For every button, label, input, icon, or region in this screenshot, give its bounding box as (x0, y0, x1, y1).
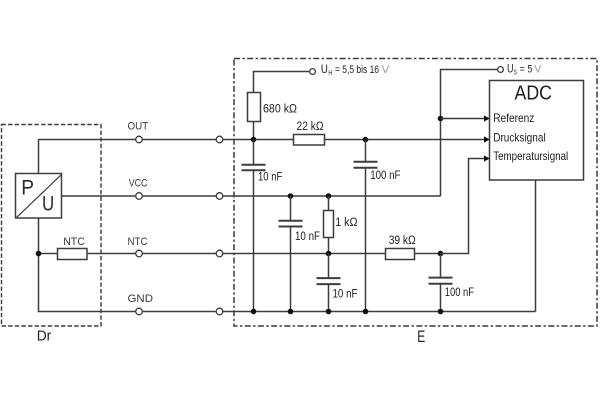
svg-text:100 nF: 100 nF (445, 287, 474, 299)
wire VCC to R3 (328, 196, 330, 211)
svg-text:U: U (321, 64, 328, 76)
wire GND line (38, 311, 536, 313)
svg-text:H: H (328, 68, 332, 77)
resistor R3 1 kOhm (324, 211, 358, 238)
wire OUT riser from sensor top (38, 140, 40, 174)
svg-text:22 kΩ: 22 kΩ (297, 121, 324, 133)
svg-text:P: P (21, 176, 34, 199)
svg-text:10 nF: 10 nF (258, 171, 282, 183)
terminal US (498, 67, 504, 73)
connector pin NTC (Dr side) (136, 250, 143, 257)
node US/Referenz junction (438, 116, 444, 122)
enclosure Dr (sensor module, dashed box) (2, 125, 102, 327)
wire C5 leg (440, 254, 442, 278)
connector pin VCC (E side) (216, 193, 223, 200)
node C1/GND (251, 309, 257, 315)
node NTC/R3 junction (326, 251, 332, 257)
connector pin GND (E side) (216, 308, 223, 315)
arrow into Referenz (484, 115, 490, 121)
svg-text:10 nF: 10 nF (295, 231, 320, 243)
node C5/GND (438, 309, 444, 315)
svg-text:ADC: ADC (515, 83, 553, 105)
node C3/GND (288, 309, 294, 315)
svg-text:GND: GND (128, 293, 154, 305)
svg-text:VCC: VCC (129, 178, 148, 190)
node NTC/R4/C5 junction (438, 251, 444, 257)
svg-text:S: S (514, 68, 517, 77)
svg-text:NTC: NTC (63, 236, 85, 248)
wire OUT line (sensor to ADC Drucksignal) (38, 139, 486, 141)
arrow into Drucksignal (484, 136, 490, 142)
wire C2 to GND (365, 169, 367, 312)
svg-text:Temperatursignal: Temperatursignal (493, 149, 568, 163)
svg-text:680 kΩ: 680 kΩ (263, 103, 297, 115)
wire ADC ground leg (535, 180, 537, 312)
resistor R2 22 kOhm (294, 121, 325, 145)
svg-text:= 5,5 bis 16: = 5,5 bis 16 (335, 64, 379, 76)
wire C5 to GND (440, 284, 442, 311)
resistor R1 680 kOhm (248, 93, 298, 122)
wire US rail (VCC riser to 5V terminal) (441, 70, 498, 197)
capacitor C1 10 nF (242, 165, 283, 184)
enclosure E (ECU, dash-dot box) (234, 59, 597, 327)
svg-text:1 kΩ: 1 kΩ (335, 217, 358, 229)
wire C3 leg (290, 196, 292, 220)
node C4/GND (326, 309, 332, 315)
svg-text:E: E (417, 328, 425, 346)
svg-text:OUT: OUT (128, 120, 149, 132)
wire C3 to GND (290, 227, 292, 311)
resistor NTC (58, 236, 88, 260)
node OUT/680k junction (251, 137, 257, 143)
sensor U1 (P/U pressure sensor) (16, 174, 62, 219)
label US = 5 V (507, 64, 542, 77)
wire Temperatursignal branch (441, 159, 486, 254)
connector pin OUT (Dr side) (136, 136, 143, 143)
node VCC/R3 junction (326, 193, 332, 199)
wire C1 to GND (253, 171, 255, 312)
wire NTC line (38, 253, 441, 255)
label UH = 5,5 bis 16 V (321, 64, 390, 77)
svg-text:NTC: NTC (128, 236, 148, 248)
capacitor C3 10 nF (279, 221, 321, 243)
arrow into Temperatursignal (484, 155, 490, 161)
svg-text:= 5: = 5 (520, 64, 532, 76)
svg-text:V: V (382, 64, 390, 76)
capacitor C4 10 nF (317, 278, 358, 300)
wire C1 leg (OUT to cap) (253, 140, 255, 165)
connector pin NTC (E side) (216, 250, 223, 257)
capacitor C2 100 nF (354, 162, 401, 183)
wire C4 leg (328, 254, 330, 278)
wire R3 to NTC line (328, 238, 330, 254)
svg-text:39 kΩ: 39 kΩ (389, 235, 416, 247)
connector pin OUT (E side) (216, 136, 223, 143)
wire VCC line (sensor to 5V rail) (62, 195, 441, 197)
wire GND riser from sensor bottom (38, 218, 40, 312)
resistor R4 39 kOhm (386, 235, 417, 260)
capacitor C5 100 nF (429, 278, 475, 299)
svg-text:Referenz: Referenz (493, 111, 534, 125)
svg-text:100 nF: 100 nF (370, 170, 400, 182)
svg-text:Drucksignal: Drucksignal (493, 131, 546, 145)
connector pin GND (Dr side) (136, 308, 143, 315)
wire C2 leg (365, 140, 367, 162)
terminal UH (310, 69, 316, 75)
node C2/GND (363, 309, 369, 315)
svg-text:Dr: Dr (37, 327, 52, 344)
node VCC/C3 junction (288, 193, 294, 199)
wire UH feed (to 680k) (254, 72, 310, 94)
node OUT/C2 junction (363, 137, 369, 143)
wire 680k to OUT node (253, 122, 255, 140)
svg-text:U: U (42, 192, 54, 215)
wire Referenz branch (441, 118, 486, 120)
wire C4 to GND (328, 285, 330, 312)
IC ADC block (490, 81, 584, 181)
connector pin VCC (Dr side) (136, 193, 143, 200)
svg-text:V: V (534, 64, 542, 76)
node sensor NTC junction (36, 251, 42, 257)
svg-text:10 nF: 10 nF (333, 288, 358, 300)
